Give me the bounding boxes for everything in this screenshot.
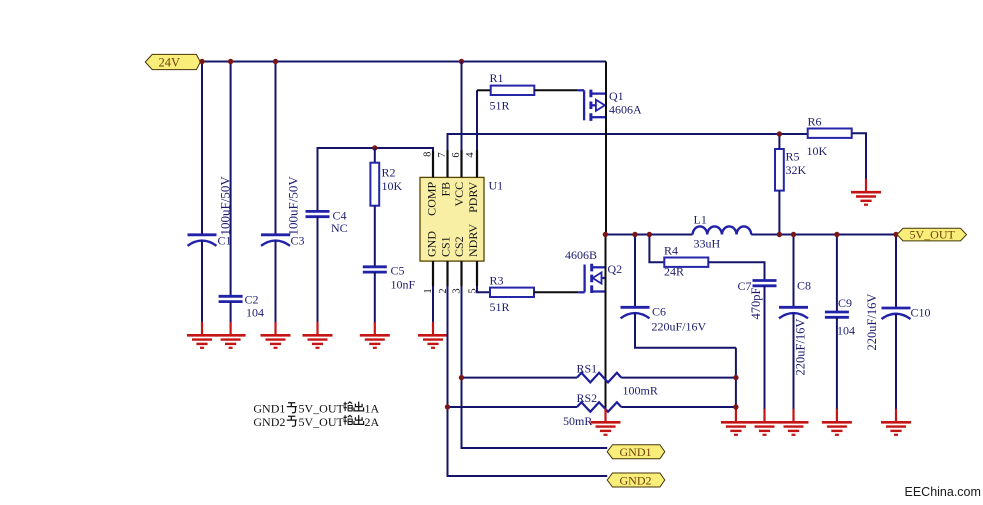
svg-text:EEChina.com: EEChina.com (905, 485, 981, 499)
wire C5 bottom (374, 272, 376, 323)
svg-text:C2: C2 (245, 293, 259, 307)
svg-text:4606A: 4606A (609, 103, 642, 117)
wire R6 right lead to ground (852, 133, 866, 179)
svg-text:100uF/50V: 100uF/50V (286, 176, 301, 236)
svg-text:32K: 32K (786, 163, 807, 177)
svg-text:51R: 51R (490, 99, 510, 113)
svg-text:GND2: GND2 (620, 473, 652, 487)
wire C7 bottom (764, 286, 766, 410)
svg-text:C8: C8 (797, 279, 811, 293)
junction dot rail/C1 (199, 59, 204, 64)
U1 pin 5 stub (476, 261, 478, 286)
junction dot rail/VCC (459, 59, 464, 64)
junction dot rail/C10 (893, 232, 898, 237)
svg-text:6: 6 (451, 152, 462, 157)
wire VCC (pin6 to rail) (461, 62, 463, 178)
wire COMP (pin8 to C4 branch) (318, 148, 434, 211)
U1 pin 8 stub (432, 151, 434, 177)
ground C10 (881, 409, 911, 435)
resistor RS1 (577, 373, 621, 383)
wire C10 top (895, 235, 897, 309)
junction dot RS1 left (459, 375, 464, 380)
svg-text:C6: C6 (652, 305, 666, 319)
svg-text:CS1: CS1 (438, 236, 452, 257)
ground C1 (187, 322, 217, 348)
junction dot RS2 left (445, 404, 450, 409)
junction dot rail/C9 (834, 232, 839, 237)
power flag 24V (145, 54, 200, 69)
svg-text:104: 104 (246, 306, 264, 320)
svg-text:104: 104 (837, 324, 855, 338)
wire R4 right to C7 (708, 262, 764, 280)
capacitor C3 (261, 235, 290, 246)
junction dot rail/C8 (791, 232, 796, 237)
capacitor C7 (753, 281, 777, 286)
svg-text:PDRV: PDRV (466, 181, 480, 212)
svg-text:VCC: VCC (452, 182, 466, 207)
wire pin4 to R1 (476, 90, 478, 177)
U1 pin 1 stub (432, 261, 434, 286)
svg-text:C10: C10 (911, 306, 931, 320)
capacitor C8 (779, 307, 808, 318)
svg-text:5V_OUT: 5V_OUT (299, 415, 345, 429)
ground C2 (216, 322, 246, 348)
svg-text:L1: L1 (694, 213, 707, 227)
ground C4 (303, 322, 333, 348)
wire C6 return vertical (735, 348, 737, 410)
svg-text:CS2: CS2 (452, 236, 466, 257)
wire Q1 drain vertical (605, 62, 607, 235)
wire 24V top rail (202, 61, 606, 63)
U1 pin 6 stub (460, 150, 462, 177)
power flag GND2 (607, 473, 665, 487)
svg-text:R2: R2 (382, 166, 396, 180)
wire R3 right lead to Q2 gate (534, 291, 578, 293)
wire FB (pin7 to divider) (448, 134, 808, 177)
svg-text:33uH: 33uH (694, 237, 721, 251)
junction dot rail/C2 (228, 59, 233, 64)
wire C4 bottom (317, 217, 319, 323)
power flag 5V_OUT (897, 227, 967, 241)
wire C6 top (634, 235, 636, 308)
ground R6 (851, 179, 881, 205)
wire pin1 to ground (432, 286, 434, 323)
ground C9 (822, 409, 852, 435)
svg-text:U1: U1 (489, 179, 504, 193)
svg-text:Q2: Q2 (608, 262, 623, 276)
svg-text:C1: C1 (218, 234, 232, 248)
svg-text:GND2: GND2 (253, 415, 285, 429)
svg-text:51R: 51R (490, 300, 510, 314)
svg-text:Q1: Q1 (609, 89, 624, 103)
svg-text:220uF/16V: 220uF/16V (652, 320, 707, 334)
wire R1 left lead (477, 89, 491, 91)
resistor R3 (490, 288, 534, 297)
capacitor C2 (219, 296, 243, 301)
svg-text:C5: C5 (391, 264, 405, 278)
resistor R6 (808, 129, 852, 138)
svg-text:4: 4 (465, 152, 476, 158)
svg-text:24R: 24R (664, 265, 684, 279)
U1 pin 2 stub (446, 261, 448, 286)
svg-text:C9: C9 (838, 296, 852, 310)
svg-text:10K: 10K (807, 144, 828, 158)
wire C1 top (201, 62, 203, 235)
junction dot switch/R4 (647, 232, 652, 237)
svg-text:R4: R4 (664, 244, 678, 258)
svg-text:50mR: 50mR (563, 414, 592, 428)
U1 pin 7 stub (446, 150, 448, 177)
resistor RS2 (577, 402, 621, 412)
wire C2 top (230, 62, 232, 297)
capacitor C4 (306, 211, 330, 216)
ground pin1 (418, 322, 448, 348)
svg-text:10K: 10K (382, 179, 403, 193)
svg-text:R5: R5 (786, 150, 800, 164)
wire C2 bottom (230, 302, 232, 323)
transistor Q1 (578, 90, 606, 121)
wire C6 bottom bend (635, 313, 736, 347)
svg-text:220uF/16V: 220uF/16V (793, 319, 807, 376)
capacitor C5 (363, 267, 387, 272)
wire pin3 down to GND1 (462, 286, 608, 448)
note line 1 (253, 401, 379, 415)
wire R4 branch (649, 235, 664, 263)
U1 pin 4 stub (476, 150, 478, 177)
junction dot switch/C6 (632, 232, 637, 237)
wire C8 top (793, 235, 795, 308)
wire R2 top lead (374, 148, 376, 163)
junction dot rail/C3 (273, 59, 278, 64)
ground C3 (261, 322, 291, 348)
resistor R4 (664, 258, 708, 267)
capacitor C10 (882, 308, 911, 319)
junction dot rail/R5 (777, 232, 782, 237)
svg-text:5V_OUT: 5V_OUT (299, 401, 345, 415)
svg-text:7: 7 (437, 152, 448, 157)
svg-text:R6: R6 (808, 115, 822, 129)
wire C10 bottom (895, 314, 897, 410)
svg-text:GND1: GND1 (253, 401, 285, 415)
junction dot FB/R5 (777, 131, 782, 136)
capacitor C9 (825, 312, 849, 317)
wire C8 bottom (793, 313, 795, 409)
wire R5 top lead (778, 134, 780, 149)
junction dot COMP/R2 (372, 145, 377, 150)
ground C7 (750, 409, 780, 435)
svg-text:220uF/16V: 220uF/16V (865, 294, 879, 351)
ground sense return (721, 409, 751, 435)
wire RS2 row (448, 406, 736, 408)
transistor Q2 (578, 264, 605, 293)
resistor R5 (775, 149, 784, 191)
svg-text:470pF: 470pF (749, 288, 763, 320)
wire R1 right lead to Q1 gate (534, 89, 578, 91)
svg-text:5V_OUT: 5V_OUT (910, 227, 956, 241)
svg-text:24V: 24V (159, 55, 181, 69)
note line 2 (253, 415, 379, 429)
junction dot switch/Q2 (603, 232, 608, 237)
wire C1 bottom (201, 241, 203, 323)
svg-text:R1: R1 (490, 71, 504, 85)
capacitor C1 (188, 235, 217, 246)
wire C3 bottom (275, 241, 277, 323)
wire C9 top (836, 235, 838, 313)
wire C9 bottom (836, 317, 838, 409)
wire pin5 to R3 (477, 286, 490, 292)
capacitor C6 (621, 307, 650, 318)
svg-text:C3: C3 (291, 234, 305, 248)
inductor L1 (693, 226, 752, 234)
svg-text:FB: FB (438, 182, 452, 197)
svg-text:RS2: RS2 (577, 391, 598, 405)
svg-text:NC: NC (331, 221, 348, 235)
svg-text:GND1: GND1 (620, 445, 652, 459)
U1 pin 3 stub (460, 261, 462, 286)
wire C3 top (275, 62, 277, 235)
resistor R2 (370, 163, 379, 206)
ground RS2 center (591, 409, 621, 435)
ground C5 (360, 322, 390, 348)
svg-text:4606B: 4606B (565, 248, 597, 262)
svg-text:10nF: 10nF (391, 278, 416, 292)
wire pin2 down to GND2 (448, 286, 608, 476)
junction dot RS1 right (733, 375, 738, 380)
wire switch rail (605, 234, 896, 236)
IC U1 body (420, 177, 484, 261)
svg-text:COMP: COMP (425, 181, 439, 215)
junction dot RS2 right (733, 404, 738, 409)
wire RS1 row (462, 377, 736, 379)
svg-text:GND: GND (425, 231, 439, 257)
svg-text:NDRV: NDRV (466, 224, 480, 257)
svg-text:R3: R3 (490, 274, 504, 288)
ground C8 (779, 409, 809, 435)
power flag GND1 (607, 445, 665, 459)
svg-text:1A: 1A (365, 401, 380, 415)
svg-text:2A: 2A (365, 415, 380, 429)
wire R5 bottom lead (778, 191, 780, 235)
svg-text:8: 8 (423, 152, 434, 157)
svg-text:100mR: 100mR (623, 384, 658, 398)
resistor R1 (491, 86, 535, 95)
svg-text:RS1: RS1 (577, 362, 598, 376)
wire R2 bottom to C5 (374, 206, 376, 267)
wire Q2 source vertical to sense (605, 235, 607, 410)
